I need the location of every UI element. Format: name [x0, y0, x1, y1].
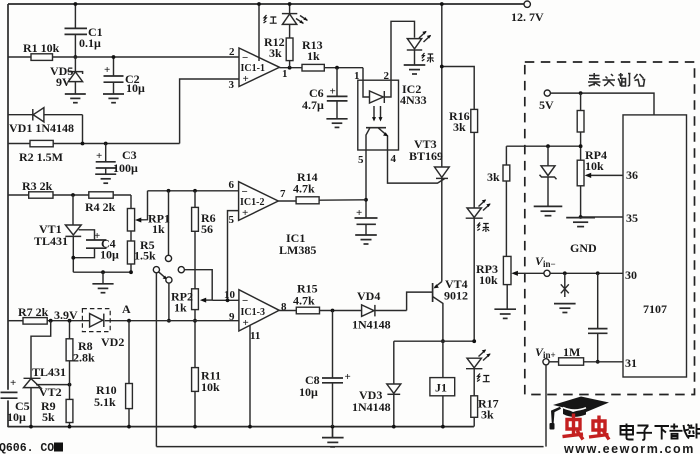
switch contact B [166, 277, 172, 283]
svg-text:R7 2k: R7 2k [18, 305, 49, 319]
diode VD2 (dashed box) [82, 309, 124, 349]
svg-text:10μ: 10μ [299, 385, 318, 399]
svg-text:in+: in+ [543, 350, 556, 360]
svg-text:11: 11 [250, 330, 260, 342]
resistor R15 4.7k [293, 282, 362, 314]
svg-text:TL431: TL431 [34, 234, 68, 248]
label red 2 (hong) [477, 374, 490, 382]
svg-text:4N33: 4N33 [400, 93, 427, 107]
svg-text:0.1μ: 0.1μ [79, 36, 101, 50]
ground (C2) [103, 94, 124, 103]
svg-text:+: + [242, 207, 248, 219]
svg-text:2: 2 [229, 46, 235, 58]
svg-text:1: 1 [282, 68, 288, 80]
op-amp IC1-1 [239, 48, 280, 87]
op-amp IC1-3 [239, 290, 279, 331]
switch contact C [178, 267, 184, 273]
svg-text:5.1k: 5.1k [94, 395, 116, 409]
LED red (top) [282, 4, 308, 24]
svg-text:1M: 1M [563, 345, 580, 359]
wire branch to R16 [442, 67, 474, 110]
label green (lv) [422, 53, 434, 63]
capacitor C4 10u [73, 230, 119, 262]
terminal 12.7V [524, 1, 530, 7]
svg-text:LM385: LM385 [279, 243, 316, 257]
svg-text:2.8k: 2.8k [73, 351, 95, 365]
svg-text:J1: J1 [435, 381, 447, 395]
svg-text:www.eeworm.com: www.eeworm.com [563, 442, 695, 454]
watermark chongchong (red) [563, 414, 610, 440]
svg-text:9V: 9V [56, 75, 71, 89]
svg-text:10μ: 10μ [126, 81, 145, 95]
svg-text:31: 31 [625, 356, 637, 370]
wire contact B to A-node row [168, 283, 170, 321]
wire bottom ground rail [8, 426, 474, 428]
resistor R6 56 [192, 191, 216, 289]
capacitor C7 (R14 node) [355, 200, 378, 235]
switch lever [159, 272, 165, 278]
resistor 3k (meter) [487, 146, 510, 256]
transistor VT4 9012 [433, 277, 468, 341]
ground (VD5) [65, 94, 86, 103]
svg-text:GND: GND [570, 241, 597, 255]
resistor (5V divider, unlabeled) [577, 93, 584, 160]
svg-text:1k: 1k [307, 49, 320, 63]
svg-text:1k: 1k [152, 222, 165, 236]
shunt ref VT2 TL431 [24, 365, 67, 427]
svg-text:3.9V: 3.9V [54, 308, 78, 322]
LED green (opto) [407, 31, 431, 65]
thyristor VT3 BT169 [409, 137, 449, 282]
svg-text:10: 10 [224, 289, 236, 301]
node R1/C1/VD5 [74, 55, 78, 59]
svg-text:+: + [243, 73, 249, 85]
watermark dianzi xiazaizhan (black) [621, 424, 700, 441]
wire +12.7V top supply rail [8, 3, 524, 5]
resistor R10 5.1k [94, 321, 132, 427]
svg-text:5: 5 [358, 154, 364, 166]
svg-text:10k: 10k [585, 159, 604, 173]
wire IC1-3 output [279, 310, 296, 312]
wire 5V to 7107 [550, 93, 654, 115]
resistor R4 2k [89, 192, 113, 198]
wire left border V- bus [7, 4, 9, 390]
svg-text:6: 6 [229, 179, 235, 191]
ground (meter zener) [534, 206, 563, 215]
svg-text:9012: 9012 [444, 289, 468, 303]
svg-text:10μ: 10μ [7, 410, 26, 424]
wire contact C to RP2 wiper [184, 270, 212, 301]
resistor 1M [549, 345, 623, 365]
svg-text:4: 4 [391, 153, 397, 165]
svg-text:BT169: BT169 [409, 149, 443, 163]
svg-text:3k: 3k [481, 408, 494, 422]
potentiometer RP2 1k [171, 289, 212, 321]
svg-text:R2 1.5M: R2 1.5M [19, 150, 63, 164]
svg-text:2: 2 [384, 70, 390, 82]
ground (C6) [326, 119, 347, 128]
ground (RP3) [494, 309, 516, 318]
wire IC1-2 inverting row y=190.8 [148, 190, 239, 192]
svg-text:7: 7 [280, 188, 286, 200]
svg-text:1N4148: 1N4148 [352, 318, 391, 332]
terminal 5V [544, 90, 550, 96]
svg-text:−: − [242, 186, 248, 198]
potentiometer RP1 1k [127, 191, 170, 236]
svg-text:+: + [104, 64, 110, 76]
svg-text:3: 3 [229, 79, 235, 91]
svg-text:3k: 3k [487, 170, 500, 184]
svg-text:R4 2k: R4 2k [85, 200, 116, 214]
potentiometer RP4 10k [577, 148, 623, 217]
varistor/X element (Vin- filter) [561, 273, 569, 297]
wire IC1-2 pin5 to pin10 node [228, 211, 239, 301]
svg-text:100μ: 100μ [113, 161, 138, 175]
wire relay node row y=341.2 [394, 340, 474, 342]
svg-text:R1 10k: R1 10k [23, 41, 60, 55]
svg-text:VD1 1N4148: VD1 1N4148 [9, 121, 74, 135]
svg-text:VT2: VT2 [39, 385, 62, 399]
svg-text:C3: C3 [122, 148, 137, 162]
label red (hong) [264, 15, 277, 23]
wire pin35 [581, 216, 623, 218]
resistor R3 2k [29, 192, 53, 198]
zener diode (meter) [540, 146, 557, 206]
internal phototransistor of IC2 [366, 128, 388, 150]
wire to VT2 [31, 321, 51, 378]
capacitor C2 10u [104, 57, 146, 95]
wire R13 node to opto pin1 [362, 68, 364, 81]
internal LED of IC2 [363, 80, 391, 121]
wire zener row y=146.2 [506, 145, 580, 147]
wire IC1-3 pin11 to ground rail [249, 325, 251, 426]
wire main +12.7V vertical bus [441, 4, 443, 167]
capacitor (pin30-pin31) [588, 273, 608, 362]
svg-text:VD4: VD4 [357, 289, 380, 303]
svg-text:30: 30 [625, 268, 637, 282]
capacitor C5 (in left bus) [1, 391, 18, 393]
svg-text:+: + [10, 377, 16, 389]
svg-text:10μ: 10μ [100, 248, 119, 262]
capacitor C6 4.7u [302, 68, 348, 119]
capacitor C3 100u [96, 144, 138, 176]
LED red 2 [466, 349, 491, 368]
potentiometer RP3 10k [476, 256, 544, 308]
wire opto pin4 to VT3 gate [388, 150, 445, 183]
svg-text:+: + [356, 207, 362, 219]
op-amp IC1-2 [239, 182, 279, 221]
ground (VT1) [92, 272, 113, 293]
svg-text:56: 56 [201, 222, 213, 236]
terminal Vin- [544, 270, 550, 276]
svg-text:1.5k: 1.5k [134, 249, 156, 263]
svg-text:4.7k: 4.7k [293, 294, 315, 308]
diode VD1 1N4148 [8, 108, 83, 144]
wire A-node row y=320.7 [8, 320, 23, 322]
resistor R14 4.7k [293, 170, 366, 204]
svg-text:−: − [242, 295, 248, 307]
wire IC1-1 output [280, 67, 303, 69]
resistor R5 1.5k [127, 231, 156, 272]
optocoupler IC2 4N33 [358, 80, 427, 150]
wire VT2 ref to R8/R9 [36, 384, 70, 386]
wire to IC1-1 pin3 [180, 79, 239, 144]
wire opto pin2 to green LED [391, 21, 415, 80]
diode VD4 1N4148 [352, 289, 407, 332]
resistor R9 5k [41, 399, 73, 427]
wire Vin+ return line [156, 446, 543, 448]
diode VD3 1N4148 [352, 341, 401, 426]
wire RP2 wiper node to IC1-3 pin10 [212, 299, 239, 301]
svg-text:Q606. CO: Q606. CO [0, 442, 54, 454]
wire opto pin5 to R14 node [365, 150, 367, 200]
svg-text:3k: 3k [453, 120, 466, 134]
svg-text:5V: 5V [539, 98, 554, 112]
svg-text:1N4148: 1N4148 [352, 400, 391, 414]
resistor R7 2k [23, 318, 47, 325]
title biao-tou-bu-fen [588, 73, 645, 86]
wire inverting input row y=57 [8, 56, 31, 58]
dashed meter enclosure [525, 62, 695, 395]
ground (X element) [554, 304, 576, 313]
resistor R1 10k [31, 54, 53, 61]
svg-text:R3 2k: R3 2k [22, 179, 53, 193]
wire IC1-2 output [278, 200, 296, 202]
zener VD5 9V [50, 57, 83, 94]
wire VD4 to VT4 base [407, 292, 433, 310]
svg-text:4.7μ: 4.7μ [302, 98, 324, 112]
wire reference row y=195 [8, 194, 29, 196]
svg-text:VD2: VD2 [101, 335, 124, 349]
wire VT1 anode row y=272 [73, 271, 131, 273]
capacitor C8 10u [299, 311, 351, 427]
LED green 2 [466, 199, 491, 341]
svg-text:10k: 10k [479, 273, 498, 287]
svg-text:+: + [345, 371, 351, 383]
svg-text:−: − [242, 52, 248, 64]
svg-text:1: 1 [354, 70, 360, 82]
ground (C7) [355, 235, 377, 244]
svg-text:4.7k: 4.7k [293, 182, 315, 196]
resistor R17 3k [471, 369, 499, 427]
resistor R13 1k [302, 38, 363, 71]
terminal Vin+ [543, 359, 549, 365]
svg-text:+: + [94, 230, 100, 242]
resistor R16 3k [449, 109, 478, 208]
wire Vin- to 7107 pin30 [550, 272, 623, 274]
resistor R11 10k [192, 321, 221, 427]
svg-text:in−: in− [543, 259, 556, 269]
shunt ref VT1 TL431 [34, 195, 81, 272]
IC 7107 [623, 115, 687, 377]
resistor R2 1.5M [8, 140, 180, 164]
switch common contact [153, 267, 159, 273]
svg-text:1k: 1k [174, 301, 187, 315]
wire IC1-1 V+ stub [258, 4, 260, 61]
resistor R12 3k [264, 25, 293, 68]
svg-text:35: 35 [626, 211, 638, 225]
capacitor C1 [65, 4, 103, 57]
resistor R8 2.8k [66, 321, 95, 400]
switch contact A (top) [168, 191, 170, 255]
svg-text:TL431: TL431 [32, 365, 66, 379]
svg-text:12. 7V: 12. 7V [511, 10, 544, 24]
label green 2 (lv) [477, 223, 489, 233]
relay J1 [430, 341, 455, 426]
ground (RP4/GND) [566, 218, 595, 227]
svg-text:36: 36 [626, 168, 638, 182]
ground (green LED opto) [404, 65, 426, 74]
svg-text:5k: 5k [42, 410, 55, 424]
svg-text:+: + [243, 317, 249, 329]
svg-text:7107: 7107 [643, 302, 667, 316]
svg-text:A: A [122, 302, 131, 316]
svg-text:10k: 10k [201, 380, 220, 394]
ground (main rail, center) [322, 427, 344, 447]
ground (C3) [95, 174, 116, 183]
wire common to Vin+ return [155, 273, 157, 447]
wire Vin+ down to return line [545, 365, 547, 447]
svg-text:3k: 3k [269, 46, 282, 60]
svg-text:+: + [96, 150, 102, 162]
svg-text:5: 5 [229, 214, 235, 226]
svg-text:+: + [330, 86, 336, 98]
watermark graduation cap [550, 397, 610, 430]
